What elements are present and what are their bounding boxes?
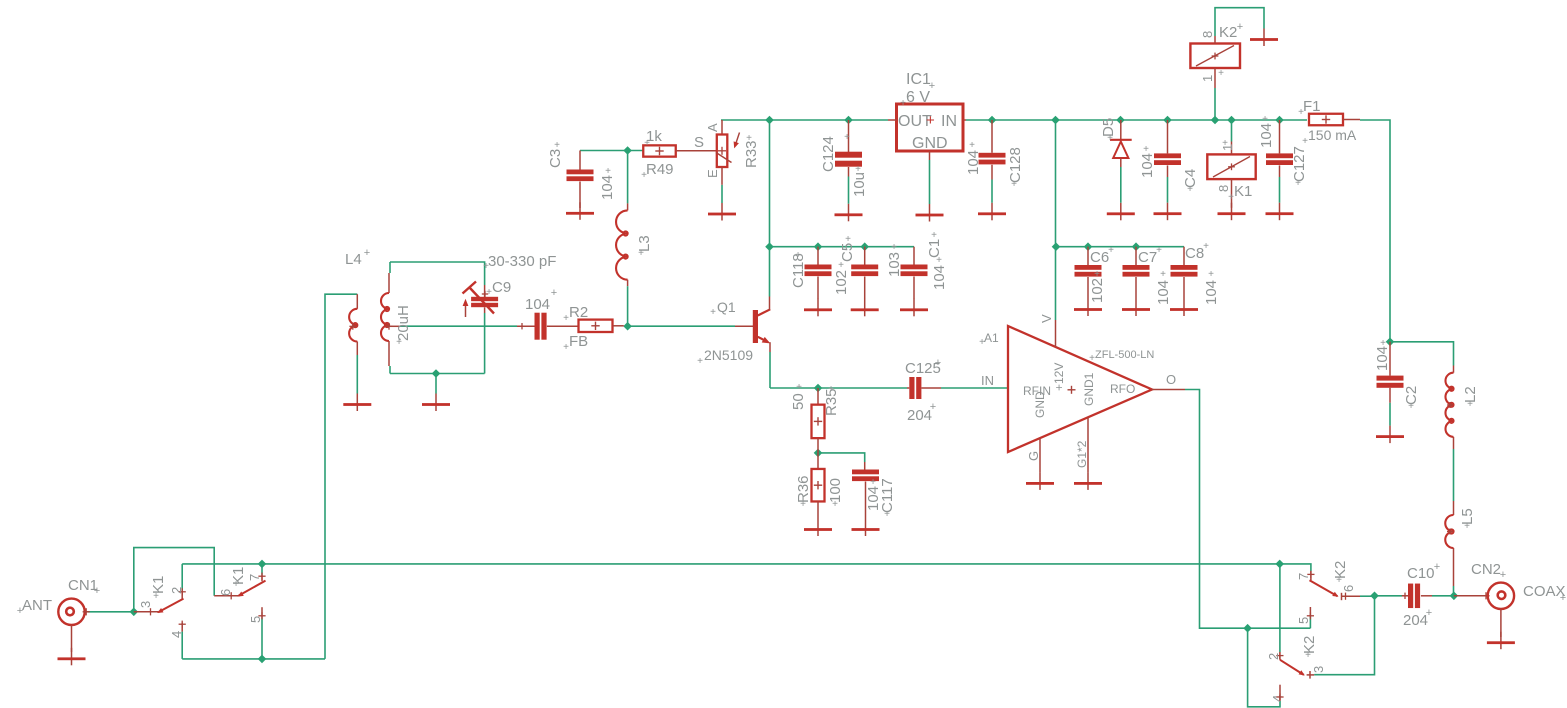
svg-text:6: 6	[218, 589, 233, 596]
svg-text:+: +	[638, 248, 644, 259]
label L4	[345, 247, 370, 268]
label 104 C7	[1155, 269, 1172, 305]
inductor L2	[1445, 366, 1453, 450]
wire net ground stubs (teal sections)	[357, 160, 1390, 426]
ground L4 primary	[343, 394, 371, 412]
svg-text:+: +	[1560, 592, 1566, 604]
inductor L4 primary winding	[349, 294, 357, 355]
svg-text:50: 50	[790, 393, 807, 410]
resistor R49	[643, 145, 717, 156]
switch K1B arm	[238, 581, 266, 597]
svg-text:C5: C5	[839, 243, 856, 262]
svg-text:6: 6	[1341, 585, 1356, 592]
wire net amp V supply	[1056, 120, 1185, 320]
svg-text:+: +	[1467, 399, 1473, 410]
svg-text:+: +	[828, 384, 834, 395]
label K2A pins	[1296, 561, 1356, 624]
svg-text:RFO: RFO	[1110, 382, 1135, 396]
capacitor C128	[979, 120, 1006, 180]
svg-text:104: 104	[1139, 153, 1156, 178]
connector CN2	[1454, 583, 1514, 609]
svg-text:GND: GND	[1033, 391, 1047, 418]
label 104 C128	[965, 140, 982, 175]
wire net amp output to K2	[1185, 390, 1310, 707]
svg-text:C7: C7	[1138, 249, 1157, 266]
capacitor C5	[851, 247, 878, 299]
regulator IC1 box	[888, 104, 966, 160]
switch K1B pin7	[258, 573, 265, 582]
label Q1	[710, 299, 736, 318]
label C2	[1403, 386, 1420, 412]
svg-text:3: 3	[1311, 666, 1326, 673]
label C4	[1182, 169, 1199, 195]
svg-text:6 V: 6 V	[906, 89, 930, 106]
switch K2B pin2	[1276, 652, 1283, 660]
resistor R35	[812, 388, 825, 453]
label C8	[1185, 241, 1209, 262]
svg-text:+: +	[800, 499, 806, 510]
svg-text:S: S	[694, 134, 704, 151]
label R35	[823, 384, 840, 416]
svg-text:104: 104	[1203, 280, 1220, 305]
wire net L4 secondary loop with C9	[390, 262, 485, 374]
label A1 pins	[981, 314, 1176, 468]
svg-text:+: +	[1408, 401, 1414, 412]
wire net K1 coil pin1	[1215, 88, 1232, 142]
svg-text:+: +	[1464, 521, 1470, 532]
label C3	[547, 140, 564, 168]
svg-text:+: +	[746, 133, 752, 144]
diode D5	[1110, 120, 1132, 167]
capacitor C125	[907, 377, 941, 399]
capacitor C124	[835, 120, 862, 177]
svg-text:C8: C8	[1185, 245, 1204, 262]
label 10u	[851, 164, 868, 197]
label FB	[563, 333, 588, 353]
svg-text:104: 104	[1374, 346, 1391, 371]
label 2N5109	[697, 347, 753, 367]
svg-text:8: 8	[1200, 31, 1215, 38]
label 204 C10	[1403, 607, 1432, 629]
svg-text:A: A	[705, 123, 720, 132]
switch K2A pin5	[1307, 607, 1314, 619]
ground C7	[1122, 299, 1150, 317]
capacitor C127	[1266, 120, 1293, 177]
label L3	[636, 235, 653, 259]
fuse F1	[1309, 114, 1360, 126]
label F1	[1298, 98, 1320, 118]
svg-text:+: +	[936, 255, 942, 266]
wire net R35/C117 node	[818, 453, 865, 462]
svg-text:A1: A1	[984, 331, 999, 345]
switch K2A pin6	[1342, 593, 1361, 601]
wire net C10/CN2 node	[1375, 595, 1454, 597]
svg-text:7: 7	[247, 574, 262, 581]
svg-text:L4: L4	[345, 251, 362, 268]
transistor Q1	[735, 297, 770, 353]
label C127	[1291, 146, 1308, 189]
svg-text:+: +	[1143, 144, 1149, 155]
label CN2	[1471, 561, 1506, 581]
ground C3	[566, 202, 594, 220]
label IC1 texts	[898, 71, 957, 152]
svg-text:C9: C9	[492, 279, 511, 296]
label K2B pins	[1266, 636, 1326, 702]
svg-text:8: 8	[1216, 185, 1231, 192]
switch K1A pin3	[134, 608, 158, 615]
svg-text:+: +	[605, 166, 611, 177]
svg-text:4: 4	[169, 631, 184, 638]
label 104 C117	[865, 477, 882, 511]
svg-text:+: +	[870, 477, 876, 488]
label 20uH	[395, 305, 412, 348]
svg-text:+: +	[891, 242, 897, 253]
capacitor C10	[1402, 584, 1432, 609]
svg-text:104: 104	[525, 296, 550, 313]
label 100	[827, 478, 844, 510]
inductor L5	[1445, 501, 1453, 586]
capacitor C1	[901, 247, 928, 299]
svg-text:2N5109: 2N5109	[704, 347, 753, 363]
label 30-330 pF	[483, 253, 556, 272]
svg-text:IN: IN	[981, 373, 994, 388]
ground C5	[851, 299, 879, 317]
svg-text:R49: R49	[646, 161, 674, 178]
relay coil K2	[1190, 36, 1240, 88]
svg-text:GND1: GND1	[1082, 372, 1096, 406]
label 104 C8	[1203, 269, 1220, 305]
switch K1A pin2	[179, 588, 186, 598]
wire net K1 pin7 stub	[261, 564, 263, 575]
svg-text:+: +	[1187, 184, 1193, 195]
svg-text:30-330 pF: 30-330 pF	[488, 253, 556, 270]
wire net K2 pin6 to C10	[1314, 596, 1374, 675]
ground D5	[1107, 203, 1135, 221]
svg-text:+: +	[1089, 353, 1095, 364]
ground IC1	[916, 204, 944, 222]
svg-text:+: +	[233, 579, 239, 590]
capacitor C2	[1377, 342, 1404, 403]
svg-text:+: +	[930, 401, 936, 413]
svg-text:104: 104	[1258, 123, 1275, 148]
label C128	[1007, 147, 1024, 190]
label C7	[1138, 245, 1162, 266]
svg-text:102: 102	[1089, 278, 1106, 303]
svg-text:+: +	[486, 287, 492, 298]
svg-text:2: 2	[169, 587, 184, 594]
label 103 C5	[886, 242, 903, 277]
wire net collector rail	[770, 120, 915, 297]
svg-text:1: 1	[1200, 75, 1215, 82]
svg-text:R2: R2	[569, 304, 588, 321]
ground C1	[900, 299, 928, 317]
wire net C2/L2 branch	[1390, 342, 1454, 596]
svg-text:CN2: CN2	[1471, 561, 1501, 578]
ground K2 coil	[1250, 29, 1278, 47]
svg-text:+: +	[153, 591, 159, 602]
svg-text:G: G	[1026, 451, 1041, 461]
label 104 C4	[1139, 144, 1156, 178]
capacitor C6	[1075, 247, 1102, 299]
label 150 mA	[1302, 127, 1357, 147]
label K1B pins	[218, 567, 263, 623]
svg-text:+: +	[1107, 133, 1113, 144]
label 104 C3	[599, 166, 616, 200]
svg-text:+: +	[1011, 179, 1017, 190]
label ANT	[17, 597, 52, 617]
wire net emitter node	[770, 352, 1008, 388]
wire net base node (R49/C3/L3 junction)	[580, 151, 643, 204]
ground C118	[804, 299, 832, 317]
label C117	[879, 478, 896, 520]
label 102 C118	[833, 260, 850, 295]
label 204 C125	[907, 401, 936, 424]
svg-text:+: +	[1295, 178, 1301, 189]
capacitor C8	[1171, 247, 1198, 299]
ground R33	[708, 203, 736, 221]
ground K1 coil	[1218, 203, 1246, 221]
svg-text:GND: GND	[912, 135, 948, 152]
capacitor 104 coupling	[517, 313, 547, 340]
svg-text:+: +	[697, 356, 703, 367]
svg-text:+: +	[1228, 192, 1234, 203]
svg-text:+: +	[554, 140, 560, 151]
svg-text:V: V	[1039, 314, 1054, 323]
svg-text:+: +	[832, 499, 838, 510]
svg-text:G1*2: G1*2	[1075, 440, 1089, 468]
svg-text:FB: FB	[569, 333, 588, 350]
relay coil K1	[1207, 142, 1255, 208]
label COAX	[1523, 583, 1566, 604]
label C1	[926, 230, 943, 258]
svg-text:102: 102	[833, 270, 850, 295]
svg-text:C3: C3	[547, 149, 564, 168]
label 50	[790, 382, 807, 410]
label K1 coil	[1216, 138, 1252, 203]
svg-text:+: +	[796, 382, 802, 393]
svg-text:C6: C6	[1090, 249, 1109, 266]
label C6	[1090, 245, 1114, 266]
label L2	[1462, 386, 1479, 410]
svg-text:+: +	[1094, 269, 1100, 280]
capacitor C118	[805, 247, 832, 299]
wire net K2 common (long bottom wire)	[182, 564, 1311, 652]
label R33 pins	[694, 123, 760, 178]
wire net CN1 to K1	[88, 548, 214, 612]
svg-text:+: +	[1298, 107, 1304, 118]
svg-text:7: 7	[1296, 573, 1311, 580]
svg-text:IC1: IC1	[906, 71, 931, 88]
ground CN1	[58, 625, 86, 666]
wire net V6 power rail	[721, 120, 1390, 342]
svg-text:104: 104	[931, 265, 948, 290]
svg-text:10u: 10u	[851, 172, 868, 197]
ground C6	[1074, 299, 1102, 317]
connector CN1	[58, 599, 90, 625]
svg-text:+: +	[17, 605, 23, 617]
label 104 C127	[1258, 114, 1275, 148]
label R2	[563, 304, 588, 324]
svg-text:F1: F1	[1303, 98, 1321, 115]
resistor R2 FB	[547, 320, 624, 332]
svg-text:+: +	[855, 164, 861, 175]
ground C2	[1376, 426, 1404, 444]
label 104 coupling	[525, 287, 557, 313]
svg-text:+: +	[969, 140, 975, 151]
label CN1	[68, 577, 100, 597]
wire net K1 pin5 stub	[261, 618, 263, 659]
svg-text:+: +	[94, 585, 100, 597]
svg-text:4: 4	[1270, 695, 1285, 702]
svg-text:C117: C117	[879, 478, 896, 513]
label C125	[905, 357, 941, 377]
svg-text:+: +	[551, 287, 557, 299]
svg-text:+: +	[900, 98, 906, 109]
ground C127	[1266, 203, 1294, 221]
resistor R36	[812, 453, 825, 519]
label L5	[1459, 508, 1476, 532]
svg-text:5: 5	[248, 616, 263, 623]
wire net mid signal (L4 tap to Q1 base)	[400, 325, 735, 327]
svg-text:+: +	[979, 337, 985, 348]
svg-text:+: +	[935, 357, 941, 369]
svg-text:104: 104	[1155, 280, 1172, 305]
svg-text:+: +	[396, 337, 402, 348]
label K1A pins	[138, 576, 184, 638]
ground A1 G	[1026, 472, 1054, 490]
switch K1A pin4	[179, 621, 186, 632]
svg-text:+: +	[644, 138, 650, 149]
svg-text:Q1: Q1	[717, 299, 736, 315]
ground C128	[978, 203, 1006, 221]
switch K2A pin7	[1307, 571, 1314, 580]
svg-text:+: +	[563, 342, 569, 353]
label 1k	[644, 128, 662, 149]
svg-text:+: +	[1218, 68, 1224, 79]
label D5	[1100, 118, 1117, 144]
svg-text:+: +	[1222, 138, 1228, 149]
switch K2A arm	[1310, 580, 1339, 597]
ground C124	[835, 204, 863, 222]
svg-text:+: +	[1237, 21, 1243, 33]
svg-text:K2: K2	[1219, 24, 1237, 41]
svg-text:+: +	[1380, 338, 1386, 349]
label 104 C2	[1374, 338, 1391, 371]
label C9	[486, 279, 511, 298]
svg-text:+: +	[563, 313, 569, 324]
svg-text:+: +	[483, 261, 489, 272]
svg-text:+: +	[1208, 269, 1214, 280]
svg-text:O: O	[1166, 372, 1176, 387]
ground L4 secondary	[422, 394, 450, 412]
svg-text:+12V: +12V	[1052, 363, 1066, 391]
svg-text:IN: IN	[941, 113, 957, 130]
wire net K2 coil to ground	[1215, 8, 1264, 36]
switch K2B arm	[1280, 660, 1305, 676]
label C10	[1407, 561, 1440, 582]
svg-text:C128: C128	[1007, 147, 1024, 183]
svg-text:C127: C127	[1291, 146, 1308, 182]
amplifier A1 triangle	[1008, 320, 1185, 472]
svg-text:+: +	[844, 132, 850, 143]
ground C117	[852, 519, 880, 537]
label ZFL-500-LN	[1089, 349, 1154, 364]
label C5	[839, 234, 856, 262]
ground C4	[1154, 203, 1182, 221]
svg-text:+: +	[1336, 575, 1342, 586]
capacitor C7	[1123, 247, 1150, 299]
svg-text:204: 204	[907, 407, 932, 424]
svg-text:+: +	[1302, 136, 1308, 147]
ground A1 G1*2	[1074, 472, 1102, 490]
wire net K1 pin4 to L4 (long left wire)	[182, 294, 357, 659]
svg-text:+: +	[926, 112, 935, 129]
svg-text:+: +	[1500, 569, 1506, 581]
svg-text:204: 204	[1403, 612, 1428, 629]
svg-text:+: +	[884, 509, 890, 520]
svg-text:C124: C124	[820, 136, 837, 172]
inductor L3	[616, 203, 628, 326]
label 104 C1	[931, 255, 948, 290]
svg-text:+: +	[845, 234, 851, 245]
svg-text:+: +	[364, 247, 370, 259]
svg-text:5: 5	[1296, 617, 1311, 624]
svg-text:104: 104	[599, 175, 616, 200]
capacitor C117	[852, 462, 879, 519]
switch K1B pin6	[214, 592, 238, 599]
svg-text:K1: K1	[1234, 183, 1252, 200]
svg-text:E: E	[705, 169, 720, 178]
switch K1B pin5	[258, 607, 265, 619]
switch K2B pin3	[1307, 671, 1315, 679]
svg-text:103: 103	[886, 252, 903, 277]
ground CN2	[1487, 609, 1515, 649]
label R49	[641, 161, 673, 181]
svg-text:+: +	[1426, 607, 1432, 619]
svg-text:C10: C10	[1407, 565, 1435, 582]
label 102 C6	[1089, 269, 1106, 303]
svg-text:20uH: 20uH	[395, 305, 412, 341]
switch K2B pin4	[1276, 685, 1283, 701]
ground R36	[804, 519, 832, 537]
label R36	[795, 475, 812, 510]
svg-text:+: +	[1203, 241, 1209, 252]
label C124	[820, 132, 850, 172]
svg-text:+: +	[1156, 245, 1162, 256]
svg-text:+: +	[1108, 245, 1114, 256]
svg-text:+: +	[1160, 269, 1166, 280]
svg-text:R33: R33	[743, 140, 760, 168]
svg-text:150 mA: 150 mA	[1308, 127, 1357, 143]
capacitor C9 trimmer	[463, 282, 499, 318]
svg-text:ANT: ANT	[22, 597, 52, 614]
svg-text:+: +	[1262, 114, 1268, 125]
svg-text:2: 2	[1266, 653, 1281, 660]
label K2 coil	[1200, 21, 1243, 82]
svg-text:+: +	[931, 230, 937, 241]
svg-text:ZFL-500-LN: ZFL-500-LN	[1095, 349, 1154, 361]
potentiometer R33	[716, 120, 740, 185]
svg-text:+: +	[710, 307, 716, 318]
svg-text:+: +	[641, 170, 647, 181]
capacitor C3	[567, 151, 594, 209]
label A1	[979, 331, 999, 348]
svg-text:104: 104	[965, 150, 982, 175]
svg-text:3: 3	[138, 601, 153, 608]
svg-text:+: +	[795, 250, 801, 261]
inductor L4 secondary winding (20uH)	[381, 273, 400, 366]
svg-text:+: +	[1434, 561, 1440, 573]
